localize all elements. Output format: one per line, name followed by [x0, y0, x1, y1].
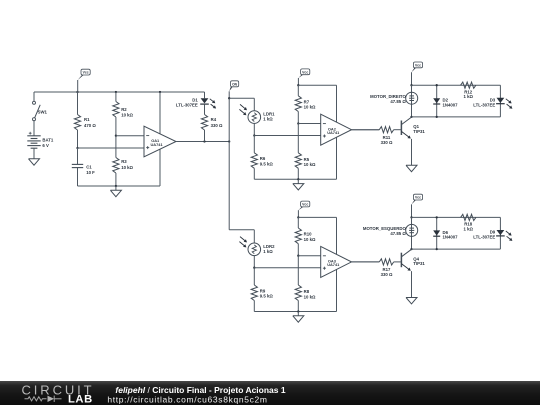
ground Q1: [411, 164, 413, 166]
ground stage 1: [115, 186, 117, 190]
svg-text:47.85 Ω: 47.85 Ω: [390, 231, 406, 236]
wire ON vertical: [228, 98, 230, 230]
power flag Vcc (motor right): [411, 72, 413, 85]
svg-text:6 V: 6 V: [42, 143, 49, 148]
svg-text:47.85 Ω: 47.85 Ω: [390, 99, 406, 104]
wire motor2 bottom rail: [412, 248, 501, 250]
wire motor1 vertical: [411, 85, 413, 117]
LED D3: [499, 85, 501, 117]
wire stage2 ground bus: [254, 178, 336, 180]
svg-text:UA741: UA741: [151, 142, 164, 147]
power flag Vcc (net Vcc, stage 1): [77, 80, 79, 92]
node junction Vcc-motor1: [410, 84, 412, 86]
node junction R2-R3 (OA1 minus node): [115, 135, 117, 137]
svg-text:10 kΩ: 10 kΩ: [304, 105, 316, 110]
resistor R17: [352, 261, 380, 263]
resistor R4: [204, 104, 206, 114]
wire minus input OA3: [298, 255, 320, 257]
op-amp OA1 V- stub: [159, 149, 161, 186]
wire switch to battery: [33, 121, 35, 132]
node junction ON-LDR1 branch: [228, 97, 230, 99]
svg-text:Vcc: Vcc: [415, 196, 421, 200]
svg-text:1N4007: 1N4007: [443, 235, 459, 240]
svg-text:10 kΩ: 10 kΩ: [121, 113, 133, 118]
svg-text:LTL-307EE: LTL-307EE: [473, 235, 495, 240]
svg-text:470 Ω: 470 Ω: [84, 123, 96, 128]
wire emitter Q4 to ground: [411, 271, 413, 297]
resistor R11: [352, 129, 380, 131]
resistor R3: [115, 136, 117, 158]
wire plus input OA1: [78, 147, 145, 149]
transistor Q4 TIP31: [400, 253, 402, 268]
wire OA1 output: [176, 141, 229, 143]
wire motor1 top rail: [412, 84, 501, 86]
svg-text:9.5 kΩ: 9.5 kΩ: [260, 161, 274, 166]
resistor R6: [253, 136, 255, 153]
motor MOTOR_ESQUERDO 47.85 Ohm: [406, 224, 418, 236]
svg-text:R2: R2: [121, 107, 127, 112]
svg-text:10 kΩ: 10 kΩ: [304, 162, 316, 167]
svg-text:R3: R3: [121, 159, 127, 164]
wire stage1 ground bus: [78, 185, 161, 187]
wire ON to LDR1: [229, 97, 254, 99]
node junction R10-R8 (OA3 minus node): [297, 255, 299, 257]
LED D1: [201, 98, 209, 103]
svg-text:R1: R1: [84, 117, 90, 122]
svg-text:http://circuitlab.com/cu63s8kq: http://circuitlab.com/cu63s8kqn5c2m: [107, 394, 267, 404]
motor MOTOR_DIREITO 47.85 Ohm: [406, 92, 418, 104]
node junction R5-ground: [297, 178, 299, 180]
node Vcc junction R1: [76, 91, 78, 93]
wire minus input OA2: [298, 123, 320, 125]
node junction R4 on output: [203, 140, 205, 142]
wire motor2 top rail: [412, 216, 501, 218]
node junction D6 top: [436, 216, 438, 218]
capacitor C1: [77, 148, 79, 164]
svg-text:1 kΩ: 1 kΩ: [263, 117, 273, 122]
resistor R10: [297, 217, 299, 228]
node junction R2: [115, 91, 117, 93]
wire LDR2 bottom: [253, 256, 255, 268]
LED D9 emission arrows: [506, 231, 511, 235]
transistor Q1 TIP31: [400, 121, 402, 136]
op-amp OA1 UA741: [144, 126, 176, 157]
wire Vcc to OA3 V+: [298, 216, 336, 218]
svg-text:330 Ω: 330 Ω: [381, 272, 393, 277]
ground below BAT1: [33, 158, 35, 160]
LED D1 emission arrows: [210, 99, 215, 103]
op-amp OA3 UA741: [321, 246, 352, 277]
wire D1 top: [204, 92, 206, 98]
LDR2 light arrows: [240, 237, 246, 242]
LED D9: [499, 217, 501, 249]
node junction R3-ground: [115, 185, 117, 187]
svg-text:10 kΩ: 10 kΩ: [304, 294, 316, 299]
resistor R18: [461, 214, 476, 220]
svg-text:1 kΩ: 1 kΩ: [463, 226, 473, 231]
svg-text:330 Ω: 330 Ω: [211, 123, 223, 128]
wire OA2 output: [352, 129, 380, 131]
svg-text:330 Ω: 330 Ω: [381, 140, 393, 145]
node junction D6 bottom: [436, 248, 438, 250]
wire OA3 output: [352, 261, 380, 263]
node A junction R1-C1 (OA1 plus node): [76, 147, 78, 149]
diode D6 1N4007: [436, 217, 438, 249]
node junction Vcc-R7: [297, 84, 299, 86]
node junction collector Q1: [410, 116, 412, 118]
wire battery to ground: [33, 148, 35, 159]
svg-text:10 F: 10 F: [86, 170, 95, 175]
battery BAT1: [33, 132, 35, 136]
switch SW1: [33, 101, 36, 104]
wire motor1 bottom rail: [412, 116, 501, 118]
wire Vcc to OA2 V+: [298, 84, 336, 86]
wire minus input OA1: [116, 135, 144, 137]
svg-text:SW1: SW1: [38, 110, 48, 115]
svg-text:LTL-307EE: LTL-307EE: [473, 102, 495, 107]
resistor R1: [77, 92, 79, 115]
svg-text:Vcc: Vcc: [83, 71, 89, 75]
node junction D2 top: [436, 84, 438, 86]
wire stage3 ground bus: [254, 311, 336, 313]
ground Q4: [411, 297, 413, 299]
resistor R8: [297, 256, 299, 285]
node junction D2 bottom: [436, 116, 438, 118]
svg-text:LAB: LAB: [68, 393, 93, 405]
svg-text:Vcc: Vcc: [302, 203, 308, 207]
svg-text:10 kΩ: 10 kΩ: [121, 165, 133, 170]
photoresistor LDR1: [248, 111, 261, 124]
svg-text:TIP31: TIP31: [413, 129, 425, 134]
svg-text:Vcc: Vcc: [415, 63, 421, 67]
node junction R7-R5 (OA2 minus node): [297, 122, 299, 124]
LDR1 light arrows: [240, 104, 246, 109]
wire emitter Q1 to ground: [411, 139, 413, 165]
wire LDR1 bottom: [253, 123, 255, 135]
svg-text:9.5 kΩ: 9.5 kΩ: [260, 294, 274, 299]
ground stage 3: [297, 312, 299, 316]
svg-text:R4: R4: [211, 117, 217, 122]
op-amp OA2 V- stub: [336, 137, 338, 179]
resistor R5: [297, 124, 299, 153]
op-amp OA3 V- stub: [336, 270, 338, 312]
svg-text:BAT1: BAT1: [42, 137, 54, 142]
resistor R9: [253, 268, 255, 285]
svg-text:Vcc: Vcc: [302, 70, 308, 74]
resistor R12: [461, 82, 476, 88]
svg-text:1 kΩ: 1 kΩ: [263, 249, 273, 254]
svg-text:1N4007: 1N4007: [443, 102, 459, 107]
resistor R7: [297, 85, 299, 96]
wire top Vcc bus: [34, 91, 205, 93]
ground stage 2: [297, 179, 299, 183]
node junction Vcc-motor2: [410, 216, 412, 218]
node junction Vcc-R10: [297, 216, 299, 218]
svg-text:LTL-307EE: LTL-307EE: [176, 103, 198, 108]
svg-text:C1: C1: [86, 164, 92, 169]
node junction output-ON net: [228, 140, 230, 142]
svg-text:10 kΩ: 10 kΩ: [304, 237, 316, 242]
photoresistor LDR2: [248, 243, 261, 256]
op-amp OA1 V+ stub: [159, 92, 161, 134]
wire bus to switch: [33, 92, 35, 101]
svg-text:UA741: UA741: [327, 262, 340, 267]
node junction LDR2-R9 (OA3 plus node): [253, 267, 255, 269]
svg-text:UA741: UA741: [327, 130, 340, 135]
node junction OA1 V+: [159, 91, 161, 93]
wire plus input OA3: [254, 267, 320, 269]
resistor R2: [115, 92, 117, 102]
LED D3 emission arrows: [506, 99, 511, 103]
svg-text:1 kΩ: 1 kΩ: [463, 94, 473, 99]
diode D2 1N4007: [436, 85, 438, 117]
power flag Vcc (stage 3): [297, 210, 299, 217]
node junction LDR1-R6 (OA2 plus node): [253, 134, 255, 136]
svg-text:ON: ON: [232, 82, 238, 86]
node junction collector Q4: [410, 248, 412, 250]
net flag ON: [228, 91, 230, 98]
logo resistor-diode glyph: [25, 396, 62, 402]
node junction R8-ground: [297, 310, 299, 312]
svg-text:TIP31: TIP31: [413, 261, 425, 266]
power flag Vcc (motor left): [411, 204, 413, 217]
op-amp OA2 UA741: [321, 114, 352, 145]
wire plus input OA2: [254, 135, 320, 137]
power flag Vcc (stage 2): [297, 78, 299, 85]
wire ON to LDR2: [229, 229, 254, 231]
wire motor2 vertical: [411, 217, 413, 249]
